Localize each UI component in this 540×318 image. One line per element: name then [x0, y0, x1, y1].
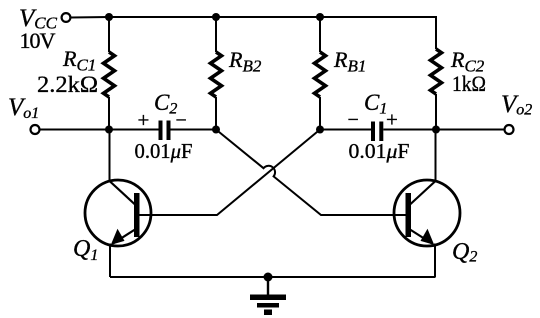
wire RC2 bottom lead	[435, 94, 437, 130]
wire C1 to node C2out	[383, 129, 436, 131]
wire top rail	[70, 17, 436, 49]
wire RC1 top lead	[108, 17, 110, 52]
wire Q1 emitter lead	[109, 244, 111, 278]
svg-text:1kΩ: 1kΩ	[452, 71, 486, 96]
svg-text:−: −	[348, 109, 359, 131]
capacitor C1	[371, 122, 383, 142]
ground	[250, 277, 286, 315]
resistor RB2	[211, 52, 222, 97]
node junction RC1 top	[105, 13, 113, 21]
terminal Vo1	[31, 125, 40, 134]
node junction RC2/Vo2	[432, 126, 440, 134]
wire Q2 collector lead	[435, 130, 437, 182]
resistor RC1	[104, 52, 115, 97]
wire Q1 collector lead	[109, 130, 111, 182]
resistor RB1	[315, 52, 326, 97]
svg-text:+: +	[138, 108, 150, 132]
node junction RB2/C2	[212, 126, 220, 134]
wire RC1 bottom lead	[108, 97, 110, 130]
terminal Vo2	[505, 125, 514, 134]
svg-text:0.01μF: 0.01μF	[349, 139, 410, 163]
resistor RC2	[431, 49, 442, 94]
wire RB1 top lead	[319, 17, 321, 52]
svg-text:10V: 10V	[20, 28, 56, 53]
svg-text:−: −	[176, 110, 187, 132]
wire RB2 bottom lead	[215, 97, 217, 130]
node junction ground	[264, 273, 273, 282]
svg-text:+: +	[386, 108, 398, 132]
wire node B1 to C1	[320, 129, 371, 131]
transistor Q2	[394, 180, 460, 246]
wire cross-couple to Q2 base	[216, 130, 406, 216]
terminal VCC	[62, 13, 71, 22]
transistor Q1	[85, 180, 151, 246]
wire bottom rail	[110, 276, 436, 278]
wire C2 to node B2	[171, 129, 217, 131]
node junction RB1 top	[316, 13, 324, 21]
wire RB2 top lead	[215, 17, 217, 52]
wire cross-couple to Q1 base	[140, 130, 321, 216]
wire Vo1 to C2	[39, 129, 158, 131]
wire Q2 emitter lead	[434, 244, 436, 278]
wire to Vo2 terminal	[436, 129, 505, 131]
capacitor C2	[159, 121, 171, 141]
node junction RB2 top	[212, 13, 220, 21]
node junction RB1/C1	[316, 126, 324, 134]
svg-text:0.01μF: 0.01μF	[135, 139, 193, 163]
wire RB1 bottom lead	[319, 97, 321, 130]
svg-text:2.2kΩ: 2.2kΩ	[37, 72, 98, 97]
node junction Vo1/RC1	[105, 126, 113, 134]
